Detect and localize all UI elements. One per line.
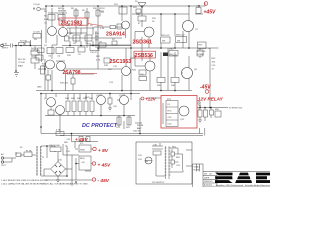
svg-text:12V SUPPLY: 12V SUPPLY [152,182,165,184]
svg-text:2SA798: 2SA798 [63,70,81,76]
svg-text:2SA914: 2SA914 [106,32,125,38]
svg-text:BIAS: BIAS [169,48,174,51]
svg-text:F1 5A: F1 5A [26,150,32,153]
svg-text:AC: AC [1,153,4,156]
svg-text:12V RELAY: 12V RELAY [198,97,224,102]
svg-text:DET: DET [85,97,90,99]
svg-text:GND: GND [37,87,42,89]
svg-text:+12V: +12V [145,96,157,101]
svg-text:4.7K: 4.7K [96,60,101,62]
svg-text:DC PROTECT: DC PROTECT [82,123,118,129]
svg-text:2SB536: 2SB536 [135,53,153,59]
svg-text:10Ω 5W: 10Ω 5W [133,131,141,133]
svg-text:1.4K: 1.4K [100,28,105,30]
svg-text:NONE: NONE [194,170,200,172]
svg-text:AMP: AMP [137,127,142,130]
svg-text:SEE TBL: SEE TBL [58,11,67,13]
svg-text:HTSNK: HTSNK [197,54,205,56]
svg-text:2SD361: 2SD361 [133,40,152,46]
svg-text:C5 100: C5 100 [18,62,26,64]
svg-text:C2 220: C2 220 [33,32,41,34]
svg-text:TO SPKR OUT: TO SPKR OUT [229,107,244,109]
svg-text:J1 IN: J1 IN [2,44,7,46]
svg-text:R19 220: R19 220 [60,83,69,85]
svg-text:+ 8V: + 8V [98,148,109,154]
svg-text:DWG NO: DWG NO [204,181,213,183]
svg-text:A-2400-1: A-2400-1 [204,184,213,187]
svg-text:-45V: -45V [200,84,211,90]
svg-text:6.8K: 6.8K [44,19,49,21]
svg-text:C10 47: C10 47 [90,52,98,54]
svg-text:- 45V: - 45V [98,178,110,184]
svg-text:117V: 117V [1,165,6,167]
svg-text:C4 100: C4 100 [31,51,39,53]
svg-text:+45V: +45V [204,9,216,15]
svg-text:10K: 10K [66,25,70,27]
svg-text:INPUT: INPUT [2,48,9,50]
svg-text:Amplifier, 2400 Professional: Amplifier, 2400 Professional Scientific … [216,184,270,187]
svg-text:1/2W: 1/2W [99,11,104,13]
svg-text:R4 1K: R4 1K [31,48,37,50]
svg-text:RG: RG [145,161,149,163]
svg-text:D7 BIAS: D7 BIAS [169,54,178,57]
svg-text:FROM: FROM [137,125,143,127]
svg-text:R9 1K: R9 1K [99,8,105,10]
svg-text:R2 10K: R2 10K [20,41,28,43]
svg-text:R32 0.22: R32 0.22 [161,35,170,37]
svg-text:DATE: DATE [204,177,210,180]
svg-text:4.7K: 4.7K [56,130,61,132]
svg-text:MTG ON: MTG ON [197,51,206,53]
svg-text:R33 0.22: R33 0.22 [176,35,185,37]
svg-text:C1 1μF: C1 1μF [33,4,41,6]
svg-text:REG: REG [80,158,85,160]
svg-text:SCALE: SCALE [194,166,201,169]
svg-text:+ 45V: + 45V [98,162,111,168]
svg-text:2SC1953: 2SC1953 [110,59,132,65]
svg-text:BIAS: BIAS [18,65,23,68]
svg-text:5W: 5W [162,41,165,43]
svg-text:R6 2.2K: R6 2.2K [18,59,26,61]
svg-text:5W: 5W [177,41,180,43]
svg-text:C30 10,000: C30 10,000 [49,145,61,147]
svg-text:10K: 10K [212,62,216,64]
svg-text:2. ALL CAPACITOR VALUES IN MIC: 2. ALL CAPACITOR VALUES IN MICROFARADS. … [1,183,89,186]
svg-text:22K: 22K [95,36,99,38]
svg-text:1. ALL RESISTORS 1/4W 5% UNLES: 1. ALL RESISTORS 1/4W 5% UNLESS NOTED [1,179,48,182]
